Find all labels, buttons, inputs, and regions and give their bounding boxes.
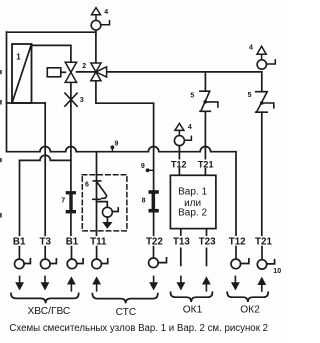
svg-text:Схемы смесительных узлов Вар.: Схемы смесительных узлов Вар. 1 и Вар. 2… [9,323,268,334]
node 9b (on T22 column) [146,168,150,172]
wire: B1 left column [18,160,20,259]
balancing valve 5 (left) [200,91,218,111]
variant box (Вар.1/Вар.2) [170,175,216,228]
wire: pump column [96,152,98,259]
svg-text:4: 4 [249,45,253,52]
wire: HX bottom header [7,102,46,104]
check valve 6 [93,181,107,199]
wire: line B (B1 link) with hump [20,155,71,160]
wire: valve2 to valve3 column [70,82,72,106]
valve V2 body (two-way) [65,62,76,82]
svg-text:9: 9 [141,163,145,170]
wire: line A main bus with crossover humps [7,147,237,236]
pump P1 [103,207,113,217]
svg-text:5: 5 [190,93,194,100]
wire: T3 column [44,103,46,259]
node 9 (on bus) [111,145,115,149]
wire: top-right bus from three-way valve [107,71,262,73]
wire: valve 5 left column upper [204,72,206,91]
heat exchanger diagonal [12,44,32,103]
flow arrow down T22 [149,276,158,290]
brace СТС [92,294,157,304]
svg-text:8: 8 [142,197,146,204]
svg-text:Т3: Т3 [39,237,51,248]
air vent 4 (top) [91,8,109,30]
svg-text:Т11: Т11 [90,237,107,248]
svg-text:СТС: СТС [116,307,137,318]
flow arrow up B1-2 [67,276,76,290]
svg-text:10: 10 [273,268,281,275]
terminal circle T3 [41,259,57,269]
terminal circle B1-2 [67,259,83,269]
balancing valve 5 (right) [256,92,274,113]
svg-text:ОК2: ОК2 [240,304,260,315]
wire: box bottom stub T13 [180,229,182,266]
svg-text:Вар. 1: Вар. 1 [178,186,207,197]
wire: air-vent column to three-way valve [95,30,97,63]
svg-text:Т21: Т21 [255,237,272,248]
pump flow arrow [102,222,112,229]
svg-text:Т12: Т12 [229,237,246,248]
brace ОК1 [171,292,213,302]
wire: OK2 T12 column lower part [235,247,237,260]
wire: valve3/B1 column [70,106,73,259]
air vent 4 (middle) [174,123,191,145]
flow arrow up T11 [92,276,101,290]
svg-text:9: 9 [114,140,118,147]
svg-text:1: 1 [16,52,21,61]
wire: mid air-vent to box (T12) [178,146,180,176]
svg-text:Т22: Т22 [146,237,163,248]
svg-text:Т13: Т13 [173,237,190,248]
flow arrow down T3 [41,276,50,290]
wire: top-left supply line [7,31,96,33]
valve V2 actuator box [47,68,61,77]
svg-text:ХВС/ГВС: ХВС/ГВС [28,306,71,317]
terminal circle B1 [14,259,30,269]
heat exchanger U1 body [12,44,32,103]
node 9b stub [148,169,154,171]
svg-text:6: 6 [85,181,89,188]
pump outlet stub [106,217,108,222]
wire: HX top outlet to valve 2 [32,45,71,62]
orifice 7 [66,191,76,213]
node 9 stub [111,147,113,151]
flow arrow up T21 [257,277,266,291]
flow arrow down B1 [15,276,24,290]
flow arrow down T13 [177,276,186,290]
terminal circle T11 [92,259,108,269]
wire: valve 5 right column [261,72,263,260]
brace ОК2 [227,292,268,302]
pump P1 branch [97,202,108,208]
dashed pump unit box [82,175,127,231]
wire: box bottom stub T23 [206,229,208,266]
svg-text:2: 2 [82,63,86,70]
wire: actuator stub [61,71,66,73]
air vent 4 (right) [257,46,275,69]
terminal circle T21 [257,260,274,269]
terminal circle T12 [231,259,249,269]
brace ХВС/ГВС [11,293,79,303]
pump tick [112,208,118,212]
svg-text:3: 3 [80,97,84,104]
svg-text:T12: T12 [171,159,187,169]
svg-text:В1: В1 [13,237,26,248]
svg-text:7: 7 [61,198,65,205]
svg-text:В1: В1 [66,237,79,248]
svg-text:T21: T21 [198,159,214,169]
svg-text:ОК1: ОК1 [183,304,203,315]
svg-text:Вар. 2: Вар. 2 [178,208,207,219]
flow arrow down T12 [231,276,240,290]
wire: valve 5 left column to box (T21) [204,111,206,175]
scan specks at left edge [0,70,2,218]
svg-text:5: 5 [248,92,252,99]
three-way valve 2 body [91,63,107,81]
svg-text:4: 4 [104,9,108,16]
orifice 8 [149,190,159,212]
valve 3 (X symbol) [65,93,77,106]
svg-text:4: 4 [188,124,192,131]
wire: link between valve 2 and three-way valve [77,71,96,73]
terminal circle T22 [149,258,167,268]
flow arrow up T23 [202,276,211,290]
svg-text:Т23: Т23 [199,237,216,248]
wire: T22 column lower part [153,247,155,258]
wire: left vertical drop [6,32,8,151]
wire: three-way valve bottom to CTC column [96,81,154,236]
